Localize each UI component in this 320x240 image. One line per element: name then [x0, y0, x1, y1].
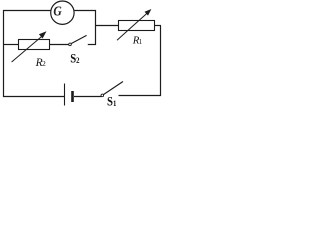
- wire S2 right: [88, 44, 96, 46]
- wire junction vertical (node joining G, R1, S2 branches): [95, 10, 97, 45]
- switch S2 pivot: [69, 43, 72, 46]
- svg-text:R2: R2: [35, 57, 47, 69]
- resistor R2 (rheostat box): [19, 40, 50, 50]
- switch S1 lever: [103, 82, 123, 95]
- wire top left: [3, 10, 51, 12]
- resistor R2 arrow: [12, 31, 47, 62]
- wire bottom left: [3, 96, 64, 98]
- battery long plate: [64, 84, 66, 106]
- wire R2 left: [3, 44, 19, 46]
- switch S1 pivot: [101, 94, 104, 97]
- wire R1 right: [155, 25, 162, 27]
- wire left vertical: [3, 10, 5, 97]
- resistor R1 arrow: [117, 9, 151, 40]
- galvanometer G (meter circle): [51, 1, 74, 24]
- wire top right: [74, 10, 96, 12]
- resistor R1 (rheostat box): [119, 21, 155, 31]
- svg-text:G: G: [53, 4, 61, 19]
- wire R1 left: [96, 25, 119, 27]
- wire bottom right: [119, 95, 162, 97]
- wire right vertical: [160, 26, 162, 97]
- wire R2 to S2: [49, 44, 69, 46]
- battery short thick plate: [71, 91, 74, 102]
- switch S2 lever: [71, 35, 87, 43]
- wire battery to S1: [74, 96, 101, 98]
